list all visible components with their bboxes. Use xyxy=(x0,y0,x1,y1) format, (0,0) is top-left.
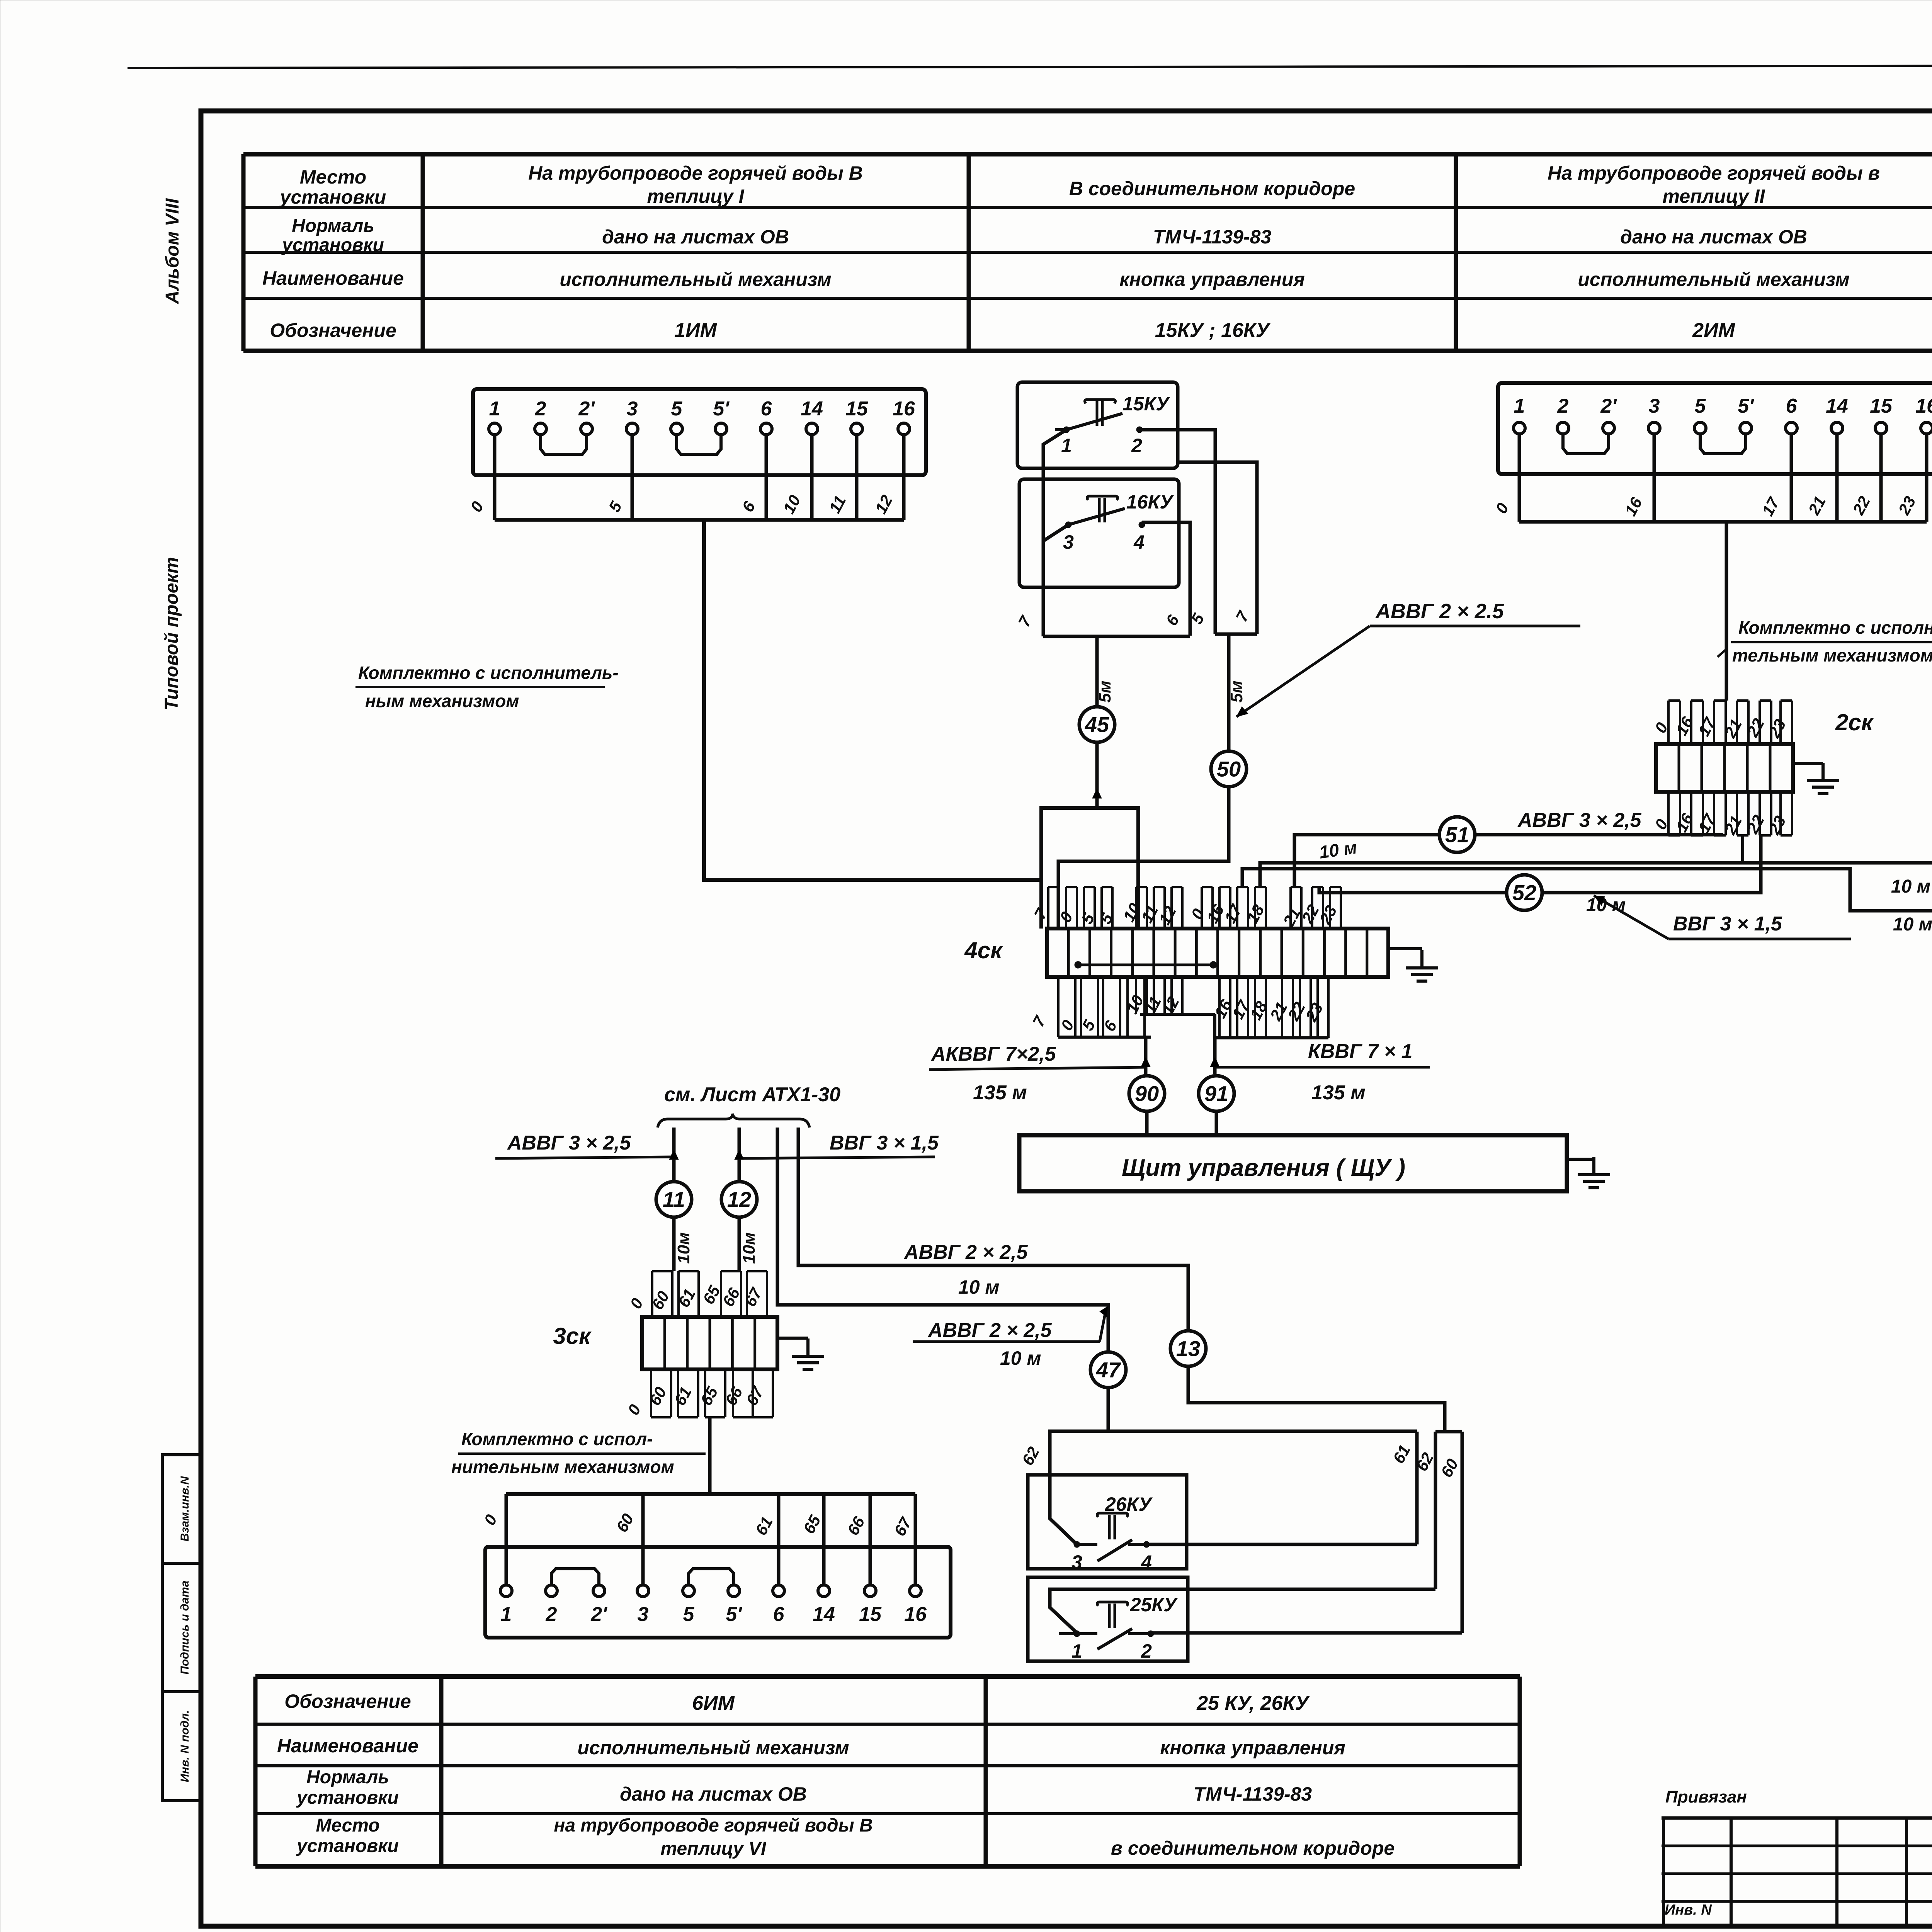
svg-text:135 м: 135 м xyxy=(973,1082,1027,1104)
cable marker 13 xyxy=(1170,1331,1206,1366)
bottom specification table xyxy=(255,1674,1520,1679)
svg-text:5м: 5м xyxy=(1095,680,1114,702)
brace xyxy=(658,1114,810,1128)
svg-text:47: 47 xyxy=(1096,1358,1121,1382)
svg-text:2': 2' xyxy=(578,398,595,420)
svg-text:теплицу I: теплицу I xyxy=(647,185,744,207)
svg-text:Место: Место xyxy=(316,1815,379,1836)
svg-text:4ск: 4ск xyxy=(964,937,1003,963)
svg-text:3: 3 xyxy=(1071,1551,1082,1573)
wire 90 to ЩУ xyxy=(1145,1113,1149,1135)
svg-text:6ИМ: 6ИМ xyxy=(692,1692,735,1714)
connection box 4ск big inlet box xyxy=(1041,808,1138,929)
terminal block 1ИМ box xyxy=(473,389,926,475)
push button 16КУ symbol xyxy=(1087,496,1117,522)
2ИМ bus wire xyxy=(1519,520,1927,524)
svg-text:10м: 10м xyxy=(674,1232,693,1264)
svg-text:АВВГ 3 × 2,5: АВВГ 3 × 2,5 xyxy=(1517,809,1642,832)
left annotation table xyxy=(1662,1816,1932,1820)
svg-text:Привязан: Привязан xyxy=(1665,1787,1747,1806)
svg-text:1ИМ: 1ИМ xyxy=(674,319,717,342)
svg-text:АВВГ 2 × 2,5: АВВГ 2 × 2,5 xyxy=(903,1241,1028,1264)
cable marker 12 xyxy=(721,1182,757,1217)
svg-text:4: 4 xyxy=(1141,1551,1152,1573)
1ИМ drop wires xyxy=(493,435,497,520)
wire 11 drop xyxy=(672,1128,676,1181)
svg-text:Комплектно с исполнитель-: Комплектно с исполнитель- xyxy=(358,663,619,683)
jumper 5-5' on 2ИМ xyxy=(1700,434,1746,454)
collector to cable 50 xyxy=(1215,633,1257,636)
svg-text:на трубопроводе горячей вод: на трубопроводе горячей воды В xyxy=(554,1815,872,1836)
2ск ground xyxy=(1793,762,1823,765)
svg-text:Комплектно с исполни-: Комплектно с исполни- xyxy=(1738,617,1932,638)
svg-text:ВВГ 3 × 1,5: ВВГ 3 × 1,5 xyxy=(830,1132,939,1154)
svg-text:теплицу VI: теплицу VI xyxy=(661,1838,767,1859)
6ИМ bus wire xyxy=(506,1492,915,1496)
svg-text:4: 4 xyxy=(1133,531,1145,553)
svg-text:1: 1 xyxy=(1514,395,1525,417)
svg-text:установки: установки xyxy=(296,1787,399,1808)
push button 16КУ contact xyxy=(1065,522,1071,528)
svg-text:5: 5 xyxy=(683,1603,695,1626)
svg-text:ВВГ 3 × 1,5: ВВГ 3 × 1,5 xyxy=(1673,913,1782,935)
svg-text:Инв. N подл.: Инв. N подл. xyxy=(179,1710,191,1782)
push button 16КУ box xyxy=(1019,479,1179,587)
svg-text:На трубопроводе горячей воды: На трубопроводе горячей воды В xyxy=(528,162,863,184)
terminal block 6ИМ terminals xyxy=(500,1585,512,1597)
svg-text:На трубопроводе горячей воды в: На трубопроводе горячей воды в xyxy=(1548,162,1880,184)
svg-text:дано на листах ОВ: дано на листах ОВ xyxy=(620,1783,807,1805)
svg-text:16: 16 xyxy=(893,398,915,420)
svg-text:10 м: 10 м xyxy=(1893,914,1932,935)
wire 61 to 26КУ-4 xyxy=(1146,1543,1417,1546)
push button 15КУ symbol xyxy=(1085,400,1115,426)
1ИМ bus wire xyxy=(495,518,904,522)
4ск top stubs middle group xyxy=(1135,887,1137,929)
svg-text:3: 3 xyxy=(1063,531,1074,553)
collector to cable 45 xyxy=(1043,635,1190,638)
svg-text:1: 1 xyxy=(501,1603,512,1626)
svg-text:5': 5' xyxy=(713,398,730,420)
svg-text:ТМЧ-1139-83: ТМЧ-1139-83 xyxy=(1194,1783,1312,1805)
svg-text:ТМЧ-1139-83: ТМЧ-1139-83 xyxy=(1153,226,1272,248)
4ск top stubs left group xyxy=(1047,887,1049,929)
cable 52 ВВГ 3х1.5 run xyxy=(1319,835,1761,893)
wire 3 drop to cable 47 xyxy=(777,1128,1108,1352)
svg-text:6: 6 xyxy=(773,1603,785,1626)
svg-text:10 м: 10 м xyxy=(958,1276,1000,1298)
push button 26КУ box xyxy=(1028,1475,1187,1569)
svg-text:14: 14 xyxy=(813,1603,835,1626)
wire 3ск to 6ИМ bus xyxy=(708,1417,712,1494)
svg-text:3: 3 xyxy=(638,1603,649,1626)
svg-text:Комплектно с испол-: Комплектно с испол- xyxy=(461,1429,653,1449)
wire 6 from 16КУ-4 xyxy=(1142,522,1190,636)
svg-text:нительным механизмом: нительным механизмом xyxy=(451,1457,674,1477)
svg-text:135 м: 135 м xyxy=(1311,1082,1366,1104)
svg-text:52: 52 xyxy=(1512,881,1536,905)
cable 53 run xyxy=(1260,863,1932,887)
left margin box Подпись и дата xyxy=(162,1563,201,1692)
svg-text:90: 90 xyxy=(1135,1082,1159,1106)
svg-text:15: 15 xyxy=(1870,395,1893,417)
svg-text:Наименование: Наименование xyxy=(277,1735,418,1757)
wire 7 from 15КУ-1 and 16КУ-3 xyxy=(1043,430,1066,636)
connection box 3ск strip xyxy=(642,1317,777,1369)
svg-text:16: 16 xyxy=(1915,395,1932,417)
6ИМ riser wires xyxy=(505,1494,508,1585)
wire 60 to 25КУ-2 xyxy=(1151,1631,1462,1635)
svg-text:25 КУ, 26КУ: 25 КУ, 26КУ xyxy=(1196,1692,1310,1714)
cable marker 90 xyxy=(1129,1076,1165,1111)
svg-text:ным механизмом: ным механизмом xyxy=(365,691,519,711)
svg-text:Нормаль: Нормаль xyxy=(292,216,374,236)
svg-text:установки: установки xyxy=(296,1836,399,1856)
jumper 2-2' on 2ИМ xyxy=(1563,434,1609,454)
connection box 4ск strip xyxy=(1047,929,1388,977)
svg-text:см. Лист АТХ1-30: см. Лист АТХ1-30 xyxy=(664,1083,840,1106)
svg-text:51: 51 xyxy=(1445,823,1469,847)
svg-text:15: 15 xyxy=(845,398,868,420)
svg-text:14: 14 xyxy=(801,398,823,420)
jumper 2-2' on 1ИМ xyxy=(541,435,587,454)
svg-text:2: 2 xyxy=(1131,435,1142,456)
control panel ЩУ box xyxy=(1019,1135,1567,1191)
svg-text:3: 3 xyxy=(627,398,638,420)
3ск ground xyxy=(777,1337,808,1340)
2ИМ drop wires xyxy=(1518,434,1521,522)
svg-text:Типовой проект: Типовой проект xyxy=(162,557,182,711)
cable marker 47 xyxy=(1090,1352,1126,1388)
left margin box Взам. инв. N xyxy=(162,1455,201,1563)
svg-text:2': 2' xyxy=(590,1603,607,1626)
svg-text:45: 45 xyxy=(1085,713,1109,737)
jumper 5-5' on 6ИМ xyxy=(689,1569,734,1585)
wire 91 to ЩУ xyxy=(1215,1113,1218,1135)
svg-text:кнопка управления: кнопка управления xyxy=(1119,269,1305,290)
svg-text:установки: установки xyxy=(281,235,384,255)
4ск bottom stubs middle group xyxy=(1135,977,1137,1014)
svg-text:5': 5' xyxy=(1738,395,1754,417)
4ск ground xyxy=(1388,947,1422,950)
svg-text:исполнительный механизм: исполнительный механизм xyxy=(560,269,831,290)
wire from 2ИМ bus to 2ск xyxy=(1725,522,1728,701)
svg-text:3ск: 3ск xyxy=(553,1323,592,1349)
svg-text:1: 1 xyxy=(1061,435,1072,456)
cable drop to circle 45 xyxy=(1095,636,1099,708)
svg-text:Обозначение: Обозначение xyxy=(284,1690,411,1712)
svg-text:дано на листах ОВ: дано на листах ОВ xyxy=(1620,226,1807,248)
jog and verticals 61 62 60 xyxy=(1435,1430,1462,1434)
svg-text:Нормаль: Нормаль xyxy=(306,1767,389,1787)
svg-text:Обозначение: Обозначение xyxy=(270,320,396,341)
top specification table xyxy=(243,152,1932,156)
4ск bottom stubs left group xyxy=(1057,977,1060,1037)
wire 50 to 4ск xyxy=(1058,787,1229,929)
svg-text:тельным механизмом: тельным механизмом xyxy=(1732,645,1932,665)
svg-text:2ИМ: 2ИМ xyxy=(1692,319,1735,342)
svg-text:10 м: 10 м xyxy=(1000,1347,1041,1369)
wire 7b xyxy=(1178,462,1257,634)
svg-text:15: 15 xyxy=(859,1603,882,1626)
svg-text:2': 2' xyxy=(1600,395,1617,417)
cable 51 АВВГ 3х2.5 run xyxy=(1294,835,1723,887)
svg-text:2ск: 2ск xyxy=(1835,709,1874,735)
wire from 4ск to circle 90 xyxy=(1144,1037,1148,1074)
push button 25КУ symbol xyxy=(1097,1602,1128,1628)
svg-text:2: 2 xyxy=(535,398,546,420)
svg-text:15КУ: 15КУ xyxy=(1122,393,1170,415)
svg-text:исполнительный механизм: исполнительный механизм xyxy=(1578,269,1849,290)
cable marker 50 xyxy=(1211,751,1247,787)
svg-text:25КУ: 25КУ xyxy=(1130,1594,1178,1616)
wire 45 to 4ск box xyxy=(1095,741,1099,808)
3ск top stubs xyxy=(651,1271,653,1317)
svg-text:5': 5' xyxy=(726,1603,742,1626)
3ск bottom stubs xyxy=(650,1369,652,1417)
svg-text:Место: Место xyxy=(300,166,366,188)
svg-text:6: 6 xyxy=(1786,395,1798,417)
svg-text:2: 2 xyxy=(546,1603,557,1626)
terminal block 2ИМ box xyxy=(1498,383,1932,474)
wire from 4ск to circle 91 xyxy=(1213,1038,1217,1074)
svg-text:5: 5 xyxy=(671,398,683,420)
push button 26КУ contact xyxy=(1074,1541,1080,1548)
ЩУ ground xyxy=(1567,1158,1594,1161)
svg-text:10 м: 10 м xyxy=(1586,895,1626,915)
2ск stub connections down xyxy=(1741,835,1744,863)
cable marker 45 xyxy=(1079,707,1115,742)
left margin box Инв. N подл. xyxy=(162,1692,201,1801)
svg-text:14: 14 xyxy=(1826,395,1848,417)
2ск top stubs xyxy=(1667,701,1670,744)
svg-text:АВВГ 2 × 2.5: АВВГ 2 × 2.5 xyxy=(1375,600,1504,623)
4ск top stubs right group xyxy=(1201,887,1203,929)
svg-text:15КУ ; 16КУ: 15КУ ; 16КУ xyxy=(1155,319,1271,342)
sheet outer top edge line xyxy=(128,65,1932,68)
svg-text:Инв. N: Инв. N xyxy=(1665,1902,1712,1918)
svg-text:50: 50 xyxy=(1217,757,1241,781)
svg-text:3: 3 xyxy=(1649,395,1660,417)
push button 15КУ box xyxy=(1017,382,1178,468)
cable 45 run lower xyxy=(1242,773,1932,911)
svg-text:16: 16 xyxy=(904,1603,927,1626)
push button 25КУ box xyxy=(1028,1577,1188,1661)
svg-text:2: 2 xyxy=(1557,395,1569,417)
svg-text:В соединительном коридоре: В соединительном коридоре xyxy=(1069,178,1355,199)
svg-text:Подпись и дата: Подпись и дата xyxy=(179,1580,191,1674)
wire 13 down xyxy=(1188,1367,1445,1432)
wire 62 to 25КУ-1 xyxy=(1050,1589,1435,1633)
wire 47 down to 26КУ xyxy=(1050,1388,1108,1544)
wire 4 drop to cable 13 xyxy=(798,1128,1188,1330)
svg-text:Альбом VIII: Альбом VIII xyxy=(162,198,183,304)
svg-text:5: 5 xyxy=(1695,395,1706,417)
svg-text:10 м: 10 м xyxy=(1891,876,1930,897)
wire from 1ИМ bus to 4ск xyxy=(704,520,1041,880)
svg-text:теплицу II: теплицу II xyxy=(1663,185,1765,207)
connection box 2ск strip xyxy=(1656,744,1793,792)
svg-text:1: 1 xyxy=(489,398,500,420)
4ск bottom stubs right group xyxy=(1218,977,1221,1038)
svg-text:АВВГ 3 × 2,5: АВВГ 3 × 2,5 xyxy=(507,1132,631,1154)
svg-text:исполнительный механизм: исполнительный механизм xyxy=(577,1737,849,1759)
svg-text:11: 11 xyxy=(663,1187,685,1212)
svg-text:Наименование: Наименование xyxy=(262,267,404,289)
svg-text:12: 12 xyxy=(727,1187,751,1212)
terminal block 6ИМ box xyxy=(485,1547,951,1638)
svg-text:91: 91 xyxy=(1204,1082,1228,1106)
svg-text:АВВГ 2 × 2,5: АВВГ 2 × 2,5 xyxy=(927,1319,1052,1342)
svg-text:2: 2 xyxy=(1141,1640,1152,1662)
svg-text:13: 13 xyxy=(1176,1337,1200,1361)
push button 15КУ contact xyxy=(1063,427,1070,433)
svg-text:1: 1 xyxy=(1071,1640,1082,1662)
4ск internal jumper xyxy=(1078,964,1213,966)
svg-text:КВВГ 7 × 1: КВВГ 7 × 1 xyxy=(1308,1040,1413,1063)
jumper 5-5' on 1ИМ xyxy=(677,435,721,454)
svg-text:кнопка управления: кнопка управления xyxy=(1160,1737,1345,1759)
jumper 2-2' on 6ИМ xyxy=(551,1569,599,1585)
svg-text:6: 6 xyxy=(761,398,772,420)
svg-text:дано на листах ОВ: дано на листах ОВ xyxy=(602,226,789,248)
svg-text:Взам.инв.N: Взам.инв.N xyxy=(179,1476,191,1541)
svg-text:10м: 10м xyxy=(740,1232,759,1264)
wire 12 drop xyxy=(738,1128,741,1181)
cable drop to circle 50 xyxy=(1227,634,1231,751)
svg-text:в соединительном коридоре: в соединительном коридоре xyxy=(1111,1837,1395,1859)
svg-text:установки: установки xyxy=(279,186,386,208)
2ск bottom stubs xyxy=(1667,792,1670,835)
svg-text:26КУ: 26КУ xyxy=(1105,1493,1153,1515)
svg-text:5м: 5м xyxy=(1227,680,1246,702)
svg-text:16КУ: 16КУ xyxy=(1126,491,1174,513)
cable marker 11 xyxy=(656,1182,692,1217)
svg-text:Щит управления ( ЩУ ): Щит управления ( ЩУ ) xyxy=(1122,1155,1405,1181)
svg-text:АКВВГ 7×2,5: АКВВГ 7×2,5 xyxy=(930,1043,1056,1065)
push button 26КУ symbol xyxy=(1097,1513,1128,1539)
wire 5 from 15КУ-2 xyxy=(1139,430,1215,634)
push button 25КУ contact xyxy=(1074,1631,1080,1637)
cable marker 91 xyxy=(1199,1076,1234,1111)
